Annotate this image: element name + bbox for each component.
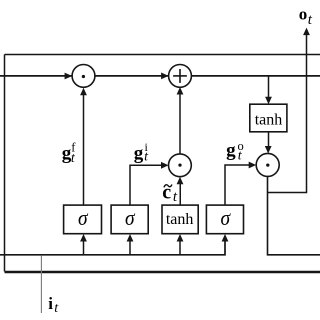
svg-text:tanh: tanh <box>255 112 283 129</box>
svg-text:σ: σ <box>221 205 232 230</box>
svg-text:σ: σ <box>125 205 136 230</box>
svg-text:g: g <box>134 143 144 164</box>
svg-text:tanh: tanh <box>166 211 194 228</box>
svg-text:σ: σ <box>78 205 89 230</box>
svg-text:i: i <box>48 294 53 313</box>
svg-text:g: g <box>226 140 236 161</box>
svg-text:o: o <box>299 4 308 23</box>
